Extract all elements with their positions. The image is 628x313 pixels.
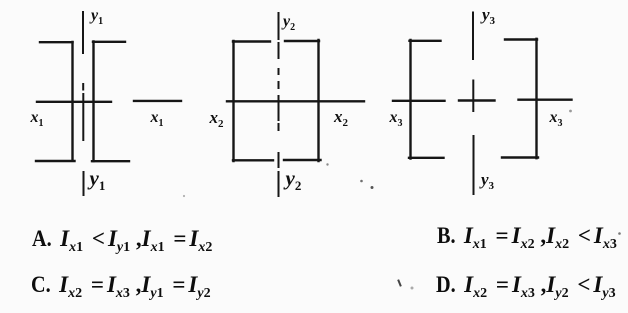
fig1 axis x1 main segment [37,101,111,103]
scan apostrophe speck before D [399,281,401,286]
scan dot after line B [618,232,621,235]
fig3 left channel web [409,40,411,159]
fig3 axis x3 left segment [393,100,445,102]
fig2 axis y2 dashes [278,13,280,196]
fig3 axis x3 center segment [459,99,495,101]
label x3 right of fig3 [550,109,563,127]
fig1 right channel bottom flange [92,160,129,162]
fig1 axis y1 dash bottom [83,172,85,195]
fig1 left channel bottom flange [36,160,75,162]
answer line D [436,272,616,298]
fig3 axis y3 dash top [472,13,474,60]
fig3 axis y3 dash middle [472,81,474,112]
fig3 axis x3 right segment [519,98,572,100]
fig3 right channel top flange [505,38,537,40]
fig1 axis y1 dot [82,84,84,90]
label y2 above fig2 [283,13,295,31]
fig3 left channel bottom flange [409,157,444,159]
answer line C [31,272,211,298]
answer line B [437,223,617,249]
fig3 right channel web [535,39,537,158]
fig1 axis y1 dash top [82,12,84,53]
fig2 right channel bottom flange [284,159,321,161]
fig2 axis x2 [227,100,364,102]
scan speck left of fig3 [371,186,374,189]
fig2 left channel top flange [233,40,270,42]
label y3 below fig3 [481,170,494,190]
fig2 right channel web [317,40,319,161]
scan speck near fig2 bottom right [326,163,328,165]
label y1 below fig1 [90,166,106,191]
fig3 right channel bottom flange [502,156,538,158]
fig3 left channel top flange [410,40,441,42]
label x2 right of fig2 [334,107,348,127]
fig2 left channel bottom flange [233,159,273,161]
fig1 left channel web [71,42,73,161]
fig3 axis y3 dash bottom [473,136,475,194]
fig1 axis x1 right dash [134,100,181,102]
scan faint speck before D [411,287,414,290]
fig2 right channel top flange [285,40,319,42]
label y2 below fig2 [286,166,302,191]
label x3 left of fig3 [390,109,403,127]
fig2 left channel web [232,41,234,161]
fig1 left channel top flange [40,41,73,43]
label x2 left of fig2 [210,108,224,128]
label y1 above fig1 [91,7,103,25]
scan speck between figures [360,180,363,183]
label x1 left of fig1 [31,109,44,127]
scan faint speck below fig1 [183,195,185,197]
fig1 right channel top flange [93,41,125,43]
fig1 axis y1 dash middle [82,94,84,140]
label x1 right of fig1 [151,109,164,127]
label y3 above fig3 [482,5,495,25]
fig1 right channel web [92,42,94,162]
scan faint speck below axis end right of fig3 [569,110,572,113]
answer line A [32,226,212,252]
